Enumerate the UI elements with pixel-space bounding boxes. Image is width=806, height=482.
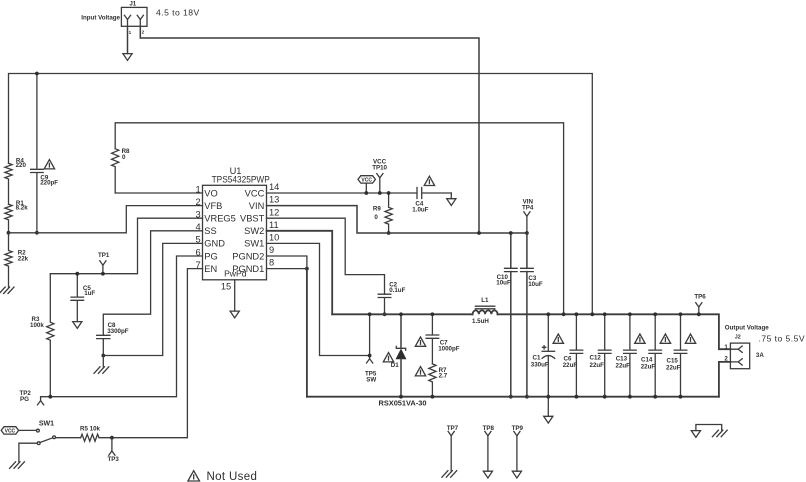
svg-text:Not Used: Not Used bbox=[207, 471, 258, 482]
svg-text:Output Voltage: Output Voltage bbox=[725, 325, 769, 332]
svg-text:SW: SW bbox=[366, 377, 376, 384]
svg-text:GND: GND bbox=[204, 239, 225, 249]
svg-text:R5 10k: R5 10k bbox=[80, 426, 101, 433]
wire PGND rail bbox=[307, 396, 719, 398]
wire pin8 PGND1 bbox=[267, 268, 307, 270]
node EN/R5/TP3 junction bbox=[110, 436, 114, 440]
svg-text:10: 10 bbox=[269, 233, 279, 243]
svg-text:C12: C12 bbox=[590, 355, 602, 362]
svg-text:TP8: TP8 bbox=[483, 425, 495, 432]
wire VOUT feedback rail (top) bbox=[9, 74, 593, 315]
svg-text:C15: C15 bbox=[667, 358, 679, 365]
test point TP4 bbox=[522, 199, 534, 235]
svg-text:TP10: TP10 bbox=[372, 164, 387, 171]
svg-text:22uF: 22uF bbox=[590, 362, 605, 369]
svg-text:TP1: TP1 bbox=[98, 252, 110, 259]
wire C4 to ground bbox=[450, 193, 452, 199]
svg-text:0: 0 bbox=[374, 214, 378, 221]
wire pin13 VIN bbox=[267, 206, 527, 233]
resistor R1 bbox=[5, 200, 28, 233]
svg-text:TP3: TP3 bbox=[108, 456, 120, 463]
svg-text:VBST: VBST bbox=[240, 214, 265, 224]
svg-text:J2: J2 bbox=[735, 335, 741, 341]
capacitor C1 (polarized) bbox=[531, 312, 555, 398]
svg-text:22uF: 22uF bbox=[616, 363, 631, 370]
svg-text:8.2k: 8.2k bbox=[16, 205, 29, 212]
ground (J1 pin1, open triangle) bbox=[123, 54, 132, 61]
wire C9 top bbox=[36, 74, 38, 169]
inductor L1 bbox=[472, 297, 498, 325]
svg-text:PG: PG bbox=[20, 396, 29, 403]
wire SW rail bbox=[332, 313, 472, 315]
svg-text:22uF: 22uF bbox=[641, 364, 656, 371]
svg-text:1: 1 bbox=[724, 344, 728, 351]
resistor R5 bbox=[80, 426, 101, 442]
resistor R4 bbox=[5, 157, 27, 204]
svg-text:SW1: SW1 bbox=[39, 420, 54, 427]
svg-text:VO: VO bbox=[204, 188, 217, 198]
resistor R2 bbox=[5, 233, 29, 287]
svg-text:D1: D1 bbox=[391, 362, 399, 369]
diode D1 RSX051VA-30 bbox=[391, 312, 406, 398]
svg-text:14: 14 bbox=[269, 182, 279, 192]
capacitor C8 bbox=[97, 322, 129, 357]
svg-text:3300pF: 3300pF bbox=[107, 328, 129, 335]
wire pin2 VFB bbox=[9, 206, 203, 233]
svg-text:10uF: 10uF bbox=[528, 281, 543, 288]
resistor R7 bbox=[429, 364, 448, 399]
wire pin7 EN bbox=[99, 269, 203, 438]
resistor R3 bbox=[30, 274, 54, 399]
ground (below C1, open triangle) bbox=[544, 416, 553, 423]
ground tie (net-tie PGND to AGND) bbox=[691, 425, 727, 438]
svg-text:12: 12 bbox=[269, 207, 279, 217]
ground (TP9, open triangle) bbox=[512, 471, 521, 478]
svg-text:EN: EN bbox=[204, 264, 217, 274]
IC U1 TPS54325PWP bbox=[196, 166, 280, 291]
svg-text:1uF: 1uF bbox=[84, 290, 95, 297]
connector J1 bbox=[81, 0, 147, 35]
svg-text:PG: PG bbox=[204, 251, 217, 261]
capacitor C5 bbox=[71, 272, 95, 322]
not-used triangle (C13) bbox=[635, 334, 645, 343]
svg-text:220pF: 220pF bbox=[40, 180, 58, 187]
svg-text:330uF: 330uF bbox=[531, 361, 549, 368]
svg-text:220: 220 bbox=[16, 162, 27, 169]
svg-text:SW2: SW2 bbox=[244, 226, 264, 236]
capacitor C3 bbox=[521, 233, 543, 399]
wire R8 top rail bbox=[115, 123, 563, 314]
wire pin9 PGND2 bbox=[267, 256, 307, 269]
svg-text:C14: C14 bbox=[641, 356, 653, 363]
svg-text:8: 8 bbox=[269, 258, 274, 268]
svg-text:TP6: TP6 bbox=[694, 293, 706, 300]
capacitor C14 bbox=[641, 312, 662, 398]
svg-text:VIN: VIN bbox=[249, 201, 265, 211]
capacitor C7 bbox=[426, 312, 460, 364]
test point TP9 bbox=[512, 425, 524, 471]
node VFB divider junction bbox=[7, 231, 11, 235]
ground (TP7, hatched) bbox=[442, 471, 457, 478]
svg-text:0.1uF: 0.1uF bbox=[389, 287, 405, 294]
ground (C5, open triangle) bbox=[73, 322, 82, 329]
wire VOUT rail bbox=[498, 314, 731, 349]
resistor R9 bbox=[373, 191, 392, 235]
not-used triangle (C4) bbox=[424, 176, 434, 185]
VCC flag (TP10) bbox=[358, 176, 375, 195]
svg-text:22uF: 22uF bbox=[666, 365, 681, 372]
legend: not-used triangle bbox=[188, 471, 200, 481]
capacitor C13 bbox=[616, 312, 637, 398]
resistor R8 bbox=[112, 148, 130, 193]
ground (C4, open triangle) bbox=[447, 199, 456, 206]
connector J2 bbox=[724, 325, 769, 369]
svg-text:10uF: 10uF bbox=[496, 280, 511, 287]
wire pin5 GND bbox=[103, 243, 202, 355]
svg-text:R9: R9 bbox=[373, 205, 381, 212]
svg-text:2.7: 2.7 bbox=[439, 373, 448, 380]
svg-text:22k: 22k bbox=[18, 255, 29, 262]
svg-text:Input Voltage: Input Voltage bbox=[81, 14, 120, 21]
not-used triangle (C15) bbox=[685, 334, 695, 343]
wire pin11 SW2 bbox=[267, 231, 333, 314]
wire pin10 SW1 bbox=[267, 243, 370, 355]
svg-text:VFB: VFB bbox=[204, 201, 222, 211]
test point TP5 bbox=[365, 312, 377, 383]
wire pin14 VCC bbox=[267, 192, 418, 194]
wire C8 bottom to ground bbox=[102, 356, 104, 367]
test point TP1 bbox=[98, 252, 110, 275]
test point TP10 bbox=[372, 159, 387, 195]
wire pin4 SS bbox=[103, 231, 202, 335]
capacitor C12 bbox=[590, 312, 612, 398]
switch SW1 bbox=[19, 420, 81, 462]
svg-text:C13: C13 bbox=[616, 356, 628, 363]
svg-text:9: 9 bbox=[269, 245, 274, 255]
wire PGND down bbox=[306, 269, 308, 397]
not-used triangle (C14) bbox=[660, 334, 670, 343]
svg-text:RSX051VA-30: RSX051VA-30 bbox=[379, 399, 427, 408]
svg-text:22uF: 22uF bbox=[563, 362, 578, 369]
svg-text:11: 11 bbox=[269, 220, 279, 230]
not-used triangle (C9) bbox=[44, 160, 54, 169]
wire pin1 VO bbox=[115, 192, 202, 194]
svg-text:0: 0 bbox=[122, 154, 126, 161]
capacitor C4 bbox=[412, 188, 451, 214]
svg-text:PwPd: PwPd bbox=[224, 268, 247, 278]
not-used triangle (R7) bbox=[415, 367, 425, 376]
not-used triangle (C7) bbox=[415, 337, 425, 346]
ground (TP8, open triangle) bbox=[483, 471, 492, 478]
svg-text:L1: L1 bbox=[481, 297, 489, 304]
svg-text:2: 2 bbox=[142, 30, 145, 35]
svg-text:4.5 to 18V: 4.5 to 18V bbox=[156, 8, 200, 18]
svg-text:13: 13 bbox=[269, 195, 279, 205]
wire C1 ground drop bbox=[547, 397, 549, 417]
capacitor C6 bbox=[563, 312, 583, 398]
test point TP6 bbox=[694, 293, 706, 316]
svg-text:TP7: TP7 bbox=[447, 425, 459, 432]
svg-text:VCC: VCC bbox=[5, 429, 16, 435]
wire J1 pin1 down bbox=[127, 26, 129, 53]
VCC flag (SW1) bbox=[1, 427, 36, 435]
wire pin12 VBST bbox=[267, 218, 385, 294]
svg-text:1: 1 bbox=[129, 30, 132, 35]
test point TP2 bbox=[20, 390, 44, 405]
capacitor C2 bbox=[378, 281, 405, 316]
capacitor C10 bbox=[496, 231, 517, 399]
test point TP7 bbox=[447, 425, 459, 471]
node C9/rail junction bbox=[35, 72, 39, 76]
svg-text:J1: J1 bbox=[129, 0, 136, 7]
svg-text:TP4: TP4 bbox=[522, 204, 534, 211]
svg-text:SS: SS bbox=[204, 226, 216, 236]
svg-text:100k: 100k bbox=[30, 322, 44, 329]
svg-text:SW1: SW1 bbox=[244, 239, 264, 249]
node feedback taps on VOUT rail bbox=[562, 312, 566, 316]
svg-text:1.0uF: 1.0uF bbox=[412, 206, 428, 213]
svg-text:PGND2: PGND2 bbox=[232, 251, 264, 261]
wire pin6 PG bbox=[41, 256, 203, 397]
test point TP8 bbox=[483, 425, 495, 471]
capacitor C9 bbox=[31, 169, 59, 234]
ground (PwPd, open triangle) bbox=[230, 311, 239, 318]
svg-text:TPS54325PWP: TPS54325PWP bbox=[212, 175, 270, 185]
node PGND junction bbox=[305, 267, 309, 271]
ground (C8, hatched) bbox=[94, 367, 109, 374]
svg-text:TP9: TP9 bbox=[512, 425, 524, 432]
svg-text:VREG5: VREG5 bbox=[204, 214, 236, 224]
wire pin3 VREG5 bbox=[50, 218, 202, 274]
capacitor C15 bbox=[666, 312, 687, 398]
svg-text:3A: 3A bbox=[756, 352, 764, 359]
wire J2 pin2 to PGND rail bbox=[719, 362, 731, 397]
wire pin15 PwPd bbox=[234, 280, 236, 311]
svg-text:15: 15 bbox=[221, 281, 231, 291]
svg-text:.75 to 5.5V: .75 to 5.5V bbox=[759, 333, 806, 343]
test point TP3 bbox=[108, 438, 120, 464]
node J1 feed junction bbox=[477, 231, 481, 235]
ground (SW1, hatched) bbox=[10, 462, 25, 469]
svg-text:VCC: VCC bbox=[245, 188, 265, 198]
wire J1 pin2 to VIN rail bbox=[140, 26, 479, 233]
svg-text:1.5uH: 1.5uH bbox=[472, 318, 489, 325]
ground (R2, hatched) bbox=[0, 287, 14, 294]
not-used triangle (C1) bbox=[553, 334, 563, 343]
svg-text:1000pF: 1000pF bbox=[438, 345, 460, 352]
not-used triangle (D1) bbox=[383, 353, 393, 362]
